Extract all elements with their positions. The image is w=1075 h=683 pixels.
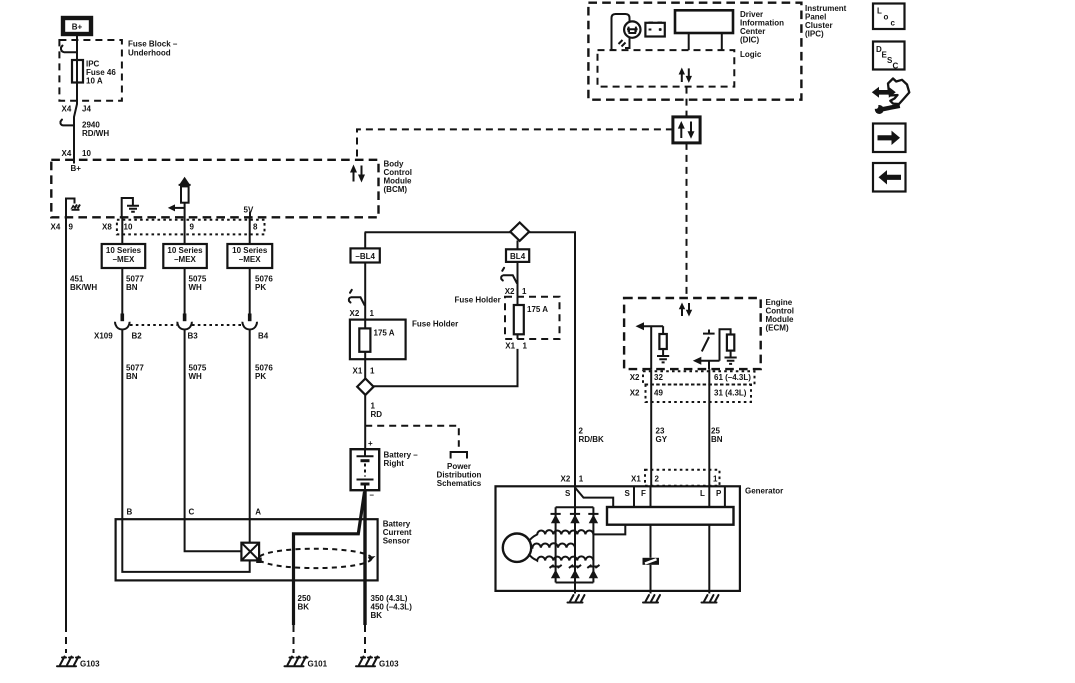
- svg-text:BK: BK: [298, 603, 310, 612]
- generator box: [496, 486, 740, 591]
- case ground under L column: [702, 595, 719, 603]
- serial data arrows in ECM: [679, 303, 692, 317]
- voltage regulator box: [607, 507, 734, 525]
- svg-text:32: 32: [654, 373, 663, 382]
- rotor circle: [503, 534, 531, 562]
- wire 25BN inside ECM: [708, 361, 710, 369]
- wire BCM pin9 to 10-series box2: [184, 217, 186, 244]
- BCM label: [384, 160, 413, 195]
- BCM dashed box: [51, 160, 378, 218]
- DIC label: [740, 10, 784, 45]
- connector labels X1 1 right fuse holder: [505, 342, 527, 351]
- ECM label: [766, 298, 795, 333]
- wire F through regulator: [650, 486, 652, 558]
- cable labels 350 450 BK: [371, 594, 413, 620]
- connector hook at fuse block: [61, 46, 77, 53]
- svg-text:X4: X4: [62, 149, 72, 158]
- svg-text:X2: X2: [561, 475, 571, 484]
- tools icon: wrench: [873, 104, 900, 114]
- wire X109 B2 to sensor pin B: [121, 330, 123, 519]
- svg-text:PK: PK: [255, 283, 266, 292]
- svg-text:S: S: [565, 489, 571, 498]
- svg-text:BN: BN: [126, 283, 138, 292]
- field element symbol: [643, 558, 660, 565]
- X109 labels: [94, 332, 269, 341]
- svg-text:L: L: [877, 7, 882, 16]
- serial data dashed wire node to ECM: [686, 143, 688, 298]
- heavy cable branch to G101: [294, 492, 365, 625]
- svg-text:175 A: 175 A: [527, 305, 548, 314]
- ground G101: [285, 657, 328, 669]
- regulator to rectifier link: [593, 525, 625, 535]
- dashed lead to G101: [293, 625, 295, 653]
- wire 23GY inside ECM: [650, 326, 652, 369]
- svg-text:X1: X1: [631, 475, 641, 484]
- generator pin cell walls: [634, 486, 725, 507]
- svg-text:–MEX: –MEX: [239, 255, 261, 264]
- serial data arrows in IPC logic: [679, 68, 692, 83]
- svg-text:(DIC): (DIC): [740, 36, 759, 45]
- charge indicator lamp icon: [612, 14, 641, 50]
- svg-text:G103: G103: [80, 660, 100, 669]
- generator output to case ground: [574, 583, 576, 594]
- fuse holder 1 box: [350, 320, 406, 360]
- connector X4 J4 labels: [62, 105, 92, 114]
- connector hook X2 left: [349, 290, 365, 305]
- ground G103 right: [356, 657, 399, 669]
- battery current sensor box: [116, 519, 378, 580]
- wire label 2 RD/BK: [579, 427, 605, 445]
- sensor pickup dashed ellipse: [259, 549, 376, 568]
- fuse holder 2 dashed box: [505, 297, 560, 339]
- bridge diodes bottom with avalanche marks: [550, 565, 600, 578]
- svg-text:(IPC): (IPC): [805, 30, 824, 39]
- svg-text:BN: BN: [126, 372, 138, 381]
- svg-text:9: 9: [190, 223, 195, 232]
- wire box1 to X109: [121, 268, 123, 315]
- svg-text:10 A: 10 A: [86, 77, 103, 86]
- stator winding middle: [531, 543, 575, 547]
- stator winding bottom: [529, 554, 594, 561]
- battery icon: [645, 23, 664, 37]
- splice BL4: [506, 249, 529, 262]
- 10 Series MEX box1: [102, 244, 146, 268]
- svg-text:2: 2: [655, 475, 660, 484]
- wire label 2940 RD/WH: [82, 121, 109, 139]
- splice -BL4: [351, 248, 380, 262]
- svg-text:RD/WH: RD/WH: [82, 129, 109, 138]
- back button: [873, 163, 906, 192]
- serial data dashed wire node to BCM: [357, 129, 673, 159]
- svg-text:(BCM): (BCM): [384, 185, 408, 194]
- svg-text:10: 10: [82, 149, 91, 158]
- svg-text:5V: 5V: [244, 206, 254, 215]
- ECM pullup to resistor right: [720, 329, 731, 360]
- wire X109 B3 to sensor pin C: [184, 330, 186, 519]
- svg-text:B2: B2: [132, 332, 143, 341]
- cable labels 250 BK: [298, 594, 312, 612]
- X109 dotted link: [130, 324, 242, 326]
- serial data node box: [673, 117, 700, 143]
- wire box2 to X109: [184, 268, 186, 315]
- wire BL4 to fuse holder 2: [517, 262, 519, 297]
- LOC button: [873, 4, 905, 30]
- sensor internal wire A: [249, 519, 251, 543]
- wire 451 BK/WH from BCM to G103: [65, 217, 67, 653]
- ECM field control circuit: sense arrow: [636, 322, 664, 330]
- ECM ground left: [657, 356, 669, 362]
- connector X109 terminal B2: [115, 314, 129, 330]
- wire diamond to BL4: [517, 241, 519, 250]
- power distribution dashed reference: [365, 426, 482, 488]
- svg-text:L: L: [700, 489, 705, 498]
- svg-text:RD: RD: [371, 410, 383, 419]
- svg-text:BL4: BL4: [510, 252, 526, 261]
- svg-text:X4: X4: [62, 105, 72, 114]
- svg-text:G103: G103: [379, 660, 399, 669]
- tools icon: double arrow: [872, 87, 896, 98]
- main output wire through bridge: [574, 487, 576, 507]
- case ground under field column: [643, 595, 660, 603]
- sensor internal wire C: [185, 519, 242, 551]
- connector X109 terminal B3: [177, 314, 191, 330]
- B+ terminal box: [63, 18, 91, 34]
- connector X8 dotted box: [117, 220, 265, 235]
- svg-text:–MEX: –MEX: [113, 255, 135, 264]
- svg-text:X2: X2: [630, 389, 640, 398]
- connector labels X2 1 right fuse holder: [505, 287, 527, 296]
- wire BCM pin10 to 10-series box1: [121, 217, 123, 244]
- wire -BL4 to fuse holder 1: [364, 263, 366, 320]
- svg-text:1: 1: [522, 287, 527, 296]
- svg-text:X109: X109: [94, 332, 113, 341]
- svg-text:X1: X1: [505, 342, 515, 351]
- svg-text:B: B: [127, 508, 133, 517]
- connector X4 10 labels: [62, 149, 92, 158]
- wire labels 5077 BN 5075 WH 5076 PK lower: [126, 364, 273, 382]
- wire BCM pin8 to 10-series box3: [249, 217, 251, 244]
- wire label 451 BK/WH: [70, 275, 97, 293]
- IPC: Instrument Panel Cluster dashed box: [588, 3, 801, 100]
- fuse 175A left: [359, 320, 394, 360]
- generator connector X1 labels: [631, 475, 718, 484]
- svg-text:S: S: [625, 489, 631, 498]
- sense lead S to regulator: [575, 488, 613, 508]
- svg-text:BN: BN: [711, 435, 723, 444]
- svg-text:Generator: Generator: [745, 487, 783, 496]
- svg-text:1: 1: [370, 309, 375, 318]
- rectifier bottom rail: [556, 582, 594, 584]
- svg-text:A: A: [255, 508, 261, 517]
- svg-text:G101: G101: [308, 660, 328, 669]
- svg-text:WH: WH: [189, 372, 203, 381]
- ECM ground right: [725, 358, 737, 364]
- generator connector X1 dotted box: [645, 470, 720, 486]
- BCM internal resistor with voltage arrow: [168, 177, 191, 217]
- svg-text:+: +: [368, 439, 373, 448]
- svg-text:Fuse Holder: Fuse Holder: [412, 320, 458, 329]
- connector hook below fuse block: [60, 120, 74, 126]
- BCM internal earth ground branch: [122, 198, 139, 217]
- svg-text:–MEX: –MEX: [174, 255, 196, 264]
- wire right fuse branch bottom: [374, 349, 518, 386]
- connector labels X1 1 left fuse holder: [353, 367, 376, 376]
- forward button: [873, 124, 906, 153]
- svg-text:1: 1: [523, 342, 528, 351]
- heavy cable battery to G103: [363, 490, 366, 653]
- svg-text:–: –: [370, 491, 375, 500]
- ECM driver output arrow: [693, 357, 720, 365]
- wire box3 to X109: [249, 268, 251, 315]
- case ground under rotor column: [568, 595, 585, 603]
- bridge diodes top: [551, 514, 599, 523]
- stator winding top: [529, 530, 594, 541]
- svg-text:c: c: [891, 19, 896, 28]
- svg-text:X1: X1: [353, 367, 363, 376]
- wire 23 GY ECM to generator F: [650, 369, 652, 486]
- wire field column to ground: [650, 591, 652, 594]
- svg-text:61 (–4.3L): 61 (–4.3L): [714, 373, 751, 382]
- battery current sensor label: [383, 520, 412, 546]
- battery cell symbol: [357, 449, 374, 490]
- junction diamond lower: [357, 379, 373, 395]
- connector X109 terminal B4: [242, 314, 256, 330]
- rectifier top rail: [556, 506, 594, 508]
- ECM pin row 1 dotted box: [643, 371, 755, 384]
- svg-text:Sensor: Sensor: [383, 537, 410, 546]
- svg-text:WH: WH: [189, 283, 203, 292]
- wire label 1 RD: [371, 402, 383, 420]
- battery label: [384, 451, 419, 469]
- ECM pin row 2 labels: [630, 389, 747, 398]
- wire field to generator case: [650, 565, 652, 591]
- generator pin letters: [565, 489, 722, 498]
- svg-text:Schematics: Schematics: [437, 479, 482, 488]
- 10 Series MEX box2: [163, 244, 207, 268]
- svg-text:8: 8: [253, 223, 258, 232]
- svg-text:X2: X2: [350, 309, 360, 318]
- IPC fuse 46: [72, 60, 116, 86]
- svg-text:B3: B3: [188, 332, 199, 341]
- wire L through regulator: [708, 486, 710, 591]
- BCM internal 5V reference: [244, 206, 254, 217]
- svg-text:C: C: [189, 508, 195, 517]
- svg-text:49: 49: [654, 389, 663, 398]
- svg-text:B+: B+: [71, 164, 82, 173]
- ECM pin row 1 labels: [630, 373, 752, 382]
- bridge left column: [556, 507, 594, 582]
- svg-text:J4: J4: [82, 105, 91, 114]
- sensor internal wire B: [122, 519, 249, 572]
- BCM pin labels X4 9 X8 10 9 8: [51, 223, 259, 232]
- svg-text:PK: PK: [255, 372, 266, 381]
- sensor element crossed box: [241, 543, 261, 563]
- wire diamond to -BL4: [364, 232, 366, 248]
- 10 Series MEX box3: [227, 244, 272, 268]
- fuse block underhood dashed box: [59, 40, 122, 101]
- BCM internal chassis ground branch: [66, 199, 80, 218]
- svg-text:B+: B+: [72, 23, 83, 32]
- svg-text:X4: X4: [51, 223, 61, 232]
- serial data arrows in BCM: [350, 165, 365, 183]
- sensor pin letters B C A: [127, 508, 262, 517]
- svg-text:10 Series: 10 Series: [232, 246, 268, 255]
- svg-text:10 Series: 10 Series: [106, 246, 142, 255]
- svg-text:–BL4: –BL4: [355, 252, 375, 261]
- svg-text:10 Series: 10 Series: [167, 246, 203, 255]
- IPC label: [805, 4, 847, 39]
- svg-text:F: F: [641, 489, 646, 498]
- svg-text:o: o: [884, 13, 889, 22]
- svg-text:1: 1: [370, 367, 375, 376]
- wire L column to ground: [708, 591, 710, 594]
- ECM lamp driver transistor: [702, 330, 715, 352]
- svg-text:X2: X2: [630, 373, 640, 382]
- svg-text:(ECM): (ECM): [766, 324, 789, 333]
- main feed wire horizontal: [365, 232, 575, 487]
- svg-text:Right: Right: [384, 459, 405, 468]
- svg-text:Fuse Block –: Fuse Block –: [128, 40, 178, 49]
- battery right box: [351, 439, 380, 500]
- junction diamond top: [510, 223, 529, 241]
- svg-text:GY: GY: [656, 435, 668, 444]
- ECM pin row 2 dotted box: [646, 385, 752, 403]
- svg-text:175 A: 175 A: [374, 329, 395, 338]
- ECM internal resistor left: [659, 326, 666, 355]
- wire X109 B4 to sensor pin A: [249, 330, 251, 519]
- connector labels X2 1 left fuse holder: [350, 309, 375, 318]
- wire label 25 BN: [711, 427, 723, 445]
- wire diamond to battery: [364, 395, 366, 449]
- fuse 175A right: [514, 297, 548, 339]
- ECM internal resistor right: [727, 335, 734, 358]
- svg-text:Underhood: Underhood: [128, 49, 171, 58]
- svg-text:BK: BK: [371, 611, 383, 620]
- svg-text:X2: X2: [505, 287, 515, 296]
- DIC display: [675, 10, 733, 50]
- connector hook X2 right: [501, 268, 517, 283]
- svg-text:1: 1: [713, 475, 718, 484]
- serial data dashed wire IPC to node: [686, 87, 688, 117]
- tools icon: outline arrow: [888, 79, 909, 105]
- generator connector X2 labels: [561, 475, 584, 484]
- wire label 23 GY: [656, 427, 668, 445]
- svg-text:9: 9: [69, 223, 74, 232]
- svg-text:C: C: [893, 62, 899, 71]
- wire labels 5077 BN 5075 WH 5076 PK upper: [126, 275, 273, 293]
- DESC button: [873, 42, 905, 71]
- svg-text:RD/BK: RD/BK: [579, 435, 605, 444]
- svg-text:1: 1: [579, 475, 584, 484]
- svg-text:P: P: [716, 489, 722, 498]
- ground G103 left: [57, 657, 100, 669]
- svg-text:B4: B4: [258, 332, 269, 341]
- svg-text:Logic: Logic: [740, 50, 762, 59]
- wire 25 BN ECM to generator L: [708, 369, 710, 486]
- wire fuse holder 1 to diamond: [364, 359, 366, 378]
- ECM dashed box: [624, 298, 761, 369]
- svg-text:BK/WH: BK/WH: [70, 283, 97, 292]
- svg-text:10: 10: [124, 223, 133, 232]
- svg-text:X8: X8: [102, 223, 112, 232]
- svg-text:31 (4.3L): 31 (4.3L): [714, 389, 747, 398]
- svg-text:Fuse Holder: Fuse Holder: [455, 296, 501, 305]
- IPC logic dashed box: [598, 50, 735, 87]
- fuse block label: [128, 40, 178, 58]
- wire B+ to BCM: [74, 34, 77, 164]
